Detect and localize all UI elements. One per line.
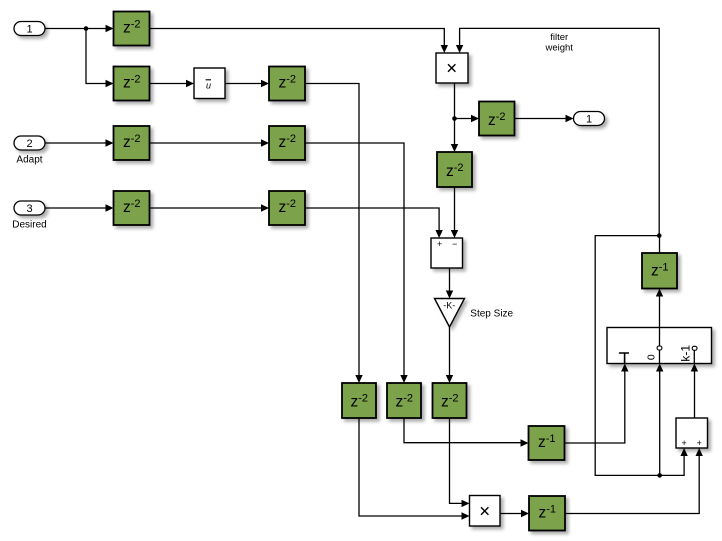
wire delay Z1c output up to junction [659,236,661,253]
wire delay A to product U2 bottom input [359,418,470,520]
wire product U2 to delay Z1b [500,510,529,517]
wire inport3 to delay6 [45,204,114,211]
wire inport1 to delay1 [45,25,114,32]
wire delay6 to delay7 [150,204,270,211]
inport 2 [14,136,45,150]
wire sum S1 to gain [446,268,453,299]
svg-text:+: + [437,239,442,249]
wire delay B to delay Z1a [404,418,529,447]
svg-text:u: u [206,81,211,91]
wire delay1 output to product U1 top-left [150,29,449,54]
delay block G4 z-2 [114,126,150,160]
product block U2 [470,496,501,527]
svg-text:1: 1 [26,24,32,36]
delay block G6 z-2 [114,191,150,225]
node junction product output [452,116,457,121]
wire junction down to delay9 [451,119,458,153]
delay block GA z-2 [342,383,376,418]
wire feedback filter weight to product U1 top-right [456,28,659,235]
svg-text:-K-: -K- [443,301,455,311]
delay block G1 z-2 [114,12,150,46]
wire product U1 output down to junction and delay8 [455,83,480,122]
delay block G2 z-2 [114,67,150,101]
product block U1 [436,53,468,83]
wire delay2 to conjugate [150,80,195,87]
svg-text:Adapt: Adapt [16,155,42,166]
node junction at switch middle input [657,473,662,478]
wire feedback branch left and down to sum S2 left input [595,236,688,476]
delay block G8 z-2 to outport [479,102,515,136]
sum block S2 [676,418,708,448]
delay block G9 z-2 middle [437,152,472,187]
wire delay7 to sum S1 plus input [305,208,443,238]
inport 3 [14,201,45,215]
wire junction up to switch input 2 [656,364,663,476]
wire sum S2 output to switch input 3 [691,364,698,419]
delay block Z1c z-1 [642,253,677,289]
delay block Z1b z-1 [529,496,565,531]
delay block G3 z-2 [269,67,305,101]
wire delay C to product U2 top input [450,418,470,507]
svg-text:3: 3 [26,203,32,215]
wire delay5 to delay B [305,143,408,383]
wire inport2 to delay4 [45,139,114,146]
switch block [607,328,712,364]
svg-text:+: + [697,438,702,448]
wire switch output to delay Z1c [656,289,663,328]
outport 1 [574,112,605,126]
inport 1 [14,22,45,36]
wire delay3 to delay A [305,84,363,384]
svg-text:Step Size: Step Size [470,308,513,319]
delay block G5 z-2 [269,126,305,160]
delay block Z1a z-1 [529,426,565,460]
svg-text:0: 0 [646,354,658,360]
wire gain to delay C [446,327,453,383]
svg-text:filter: filter [550,32,568,43]
wire conjugate to delay3 [225,80,269,87]
wire delay Z1a to switch input 1 [565,364,629,444]
delay block G7 z-2 [269,191,305,225]
svg-text:weight: weight [544,42,573,53]
sum block S1 [431,238,463,268]
svg-text:−: − [452,239,457,249]
wire inport1 branch down to delay2 [86,29,114,88]
node junction inport1 branch [84,26,89,31]
node junction filter weight [657,233,662,238]
svg-text:+: + [681,438,686,448]
svg-text:2: 2 [26,138,32,150]
conjugate block u-bar [194,68,225,99]
wire delay8 to outport1 [515,115,574,122]
svg-text:1: 1 [586,114,592,126]
wire delay Z1b to sum S2 right input [565,448,703,514]
svg-text:Desired: Desired [12,220,46,231]
gain block -K- Step Size [435,299,465,328]
wire delay9 to sum S1 minus input [451,187,458,238]
delay block GC z-2 [433,383,467,418]
svg-text:k-1: k-1 [679,345,693,362]
wire delay4 to delay5 [150,139,270,146]
delay block GB z-2 [387,383,421,418]
